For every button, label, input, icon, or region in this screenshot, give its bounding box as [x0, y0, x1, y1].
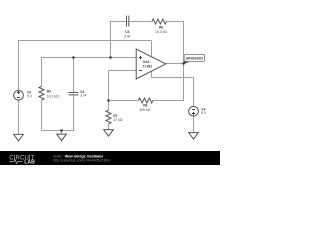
resistor R8 zigzag [152, 19, 166, 24]
wire R8 to top-right corner [166, 21, 183, 23]
logo waveform [9, 159, 22, 163]
resistor R9 zigzag [39, 86, 44, 100]
resistor R6 zigzag [139, 98, 153, 103]
wire R7 top stub [108, 101, 110, 111]
wire minus input horizontal [109, 70, 137, 72]
wire opamp V- pin [151, 71, 153, 77]
ground mid rail [57, 134, 67, 141]
footer bar [0, 151, 220, 165]
wire C3 to R8 [129, 21, 152, 23]
svg-text:LAB: LAB [24, 159, 35, 165]
V4 minus glyph [192, 109, 195, 111]
wire top horizontal left of C3 [110, 21, 127, 23]
svg-text:47 kΩ: 47 kΩ [113, 118, 122, 122]
svg-text:http://circuitlab.com/c/4e49cf: http://circuitlab.com/c/4e49cf5a73bm [53, 158, 110, 162]
junction output node [182, 62, 184, 64]
junction node A top branch [109, 56, 111, 58]
svg-text:R8: R8 [159, 25, 163, 29]
wire mid ground stem [61, 131, 63, 135]
wire feedback node to R6 [109, 100, 139, 102]
svg-text:TL081: TL081 [143, 64, 153, 68]
capacitor C4 plates [69, 93, 79, 95]
junction node A / C4 [72, 56, 74, 58]
svg-text:10.2 kΩ: 10.2 kΩ [47, 94, 59, 98]
wire positive rail [18, 40, 152, 42]
wire V4 bottom stem [193, 116, 195, 133]
source V3 circle [14, 90, 24, 100]
wire R6 to right corner [153, 100, 184, 102]
svg-text:5 V: 5 V [201, 111, 207, 115]
wire C4 top stem [73, 57, 75, 93]
op-amp OA4 triangle [136, 49, 166, 79]
source V4 circle [189, 106, 199, 116]
svg-text:3 nF: 3 nF [124, 34, 131, 38]
wire node A down to R9 [41, 57, 43, 86]
svg-text:C3: C3 [125, 30, 129, 34]
ground for V3 [14, 134, 24, 141]
wire V4 top stem [193, 78, 195, 107]
capacitor C3 plates [127, 16, 129, 27]
svg-text:3 nF: 3 nF [80, 94, 87, 98]
svg-text:SINUSOID: SINUSOID [186, 57, 203, 61]
wire V- horizontal to V4 [152, 77, 194, 79]
V3 plus glyph [17, 91, 20, 94]
svg-text:100 kΩ: 100 kΩ [139, 108, 150, 112]
wire feedback vertical [108, 71, 110, 101]
wire right vertical [183, 21, 185, 101]
svg-text:10.2 kΩ: 10.2 kΩ [155, 30, 167, 34]
wire V3 plus up to rail [18, 41, 20, 90]
svg-text:V3: V3 [27, 90, 31, 94]
wire opamp output [166, 63, 184, 65]
junction ground rail [60, 129, 62, 131]
V4 plus glyph [192, 112, 195, 115]
flag SINUSOID tail [183, 61, 190, 64]
svg-text:R7: R7 [113, 114, 117, 118]
ground for V4 [189, 133, 199, 140]
svg-text:R9: R9 [47, 90, 51, 94]
flag SINUSOID box [184, 54, 204, 61]
wire V3 bottom stem [18, 100, 20, 134]
svg-text:5 V: 5 V [27, 94, 33, 98]
ground for R7 [104, 130, 114, 137]
wire R9 bottom to ground rail [41, 100, 43, 130]
wire node A horizontal [42, 57, 137, 59]
junction feedback node [107, 99, 109, 101]
svg-text:R6: R6 [143, 103, 147, 107]
op-amp minus input glyph [139, 70, 142, 72]
wire C4 bottom stem [73, 95, 75, 131]
resistor R7 zigzag [106, 110, 111, 124]
wire opamp V+ pin [151, 41, 153, 58]
op-amp plus input glyph [139, 56, 142, 59]
svg-text:OA4: OA4 [143, 60, 150, 64]
V3 minus glyph [17, 97, 20, 99]
wire R7 bottom stub [108, 124, 110, 130]
wire bottom rail [42, 130, 74, 132]
wire top-left vertical [110, 22, 112, 58]
